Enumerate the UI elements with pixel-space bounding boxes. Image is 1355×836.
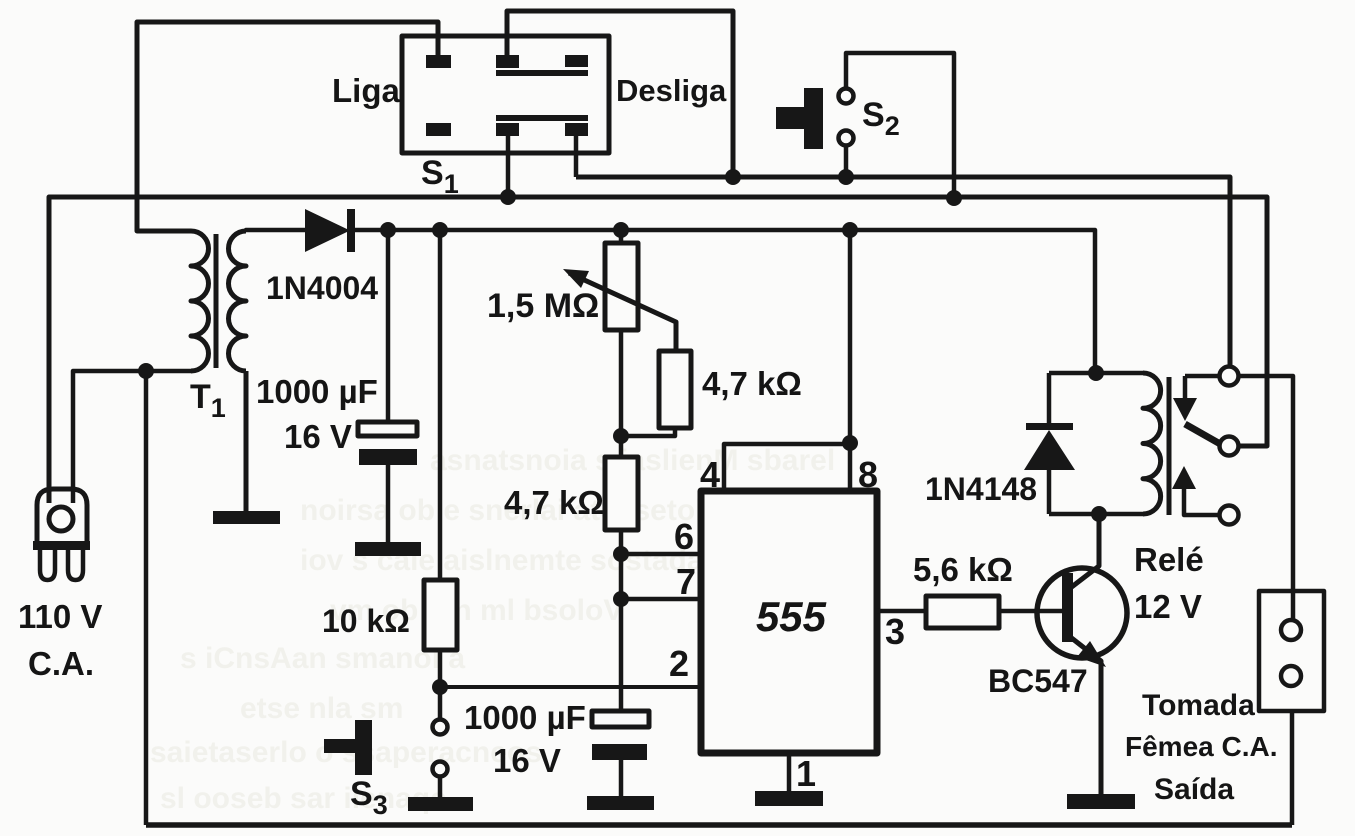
svg-text:1000 µF: 1000 µF xyxy=(464,699,586,736)
transformer T1 primary winding xyxy=(191,231,209,371)
transformer T1 core xyxy=(214,234,219,368)
relay RL1 NO contact stem xyxy=(1184,487,1219,515)
wire: secondary bottom to ground xyxy=(244,371,249,511)
wire: junction to S3 top circle xyxy=(438,687,443,719)
faint print bleed-through texture xyxy=(150,444,835,815)
svg-text:3: 3 xyxy=(885,611,905,652)
relay RL1 armature arm xyxy=(1185,424,1222,445)
ground: capacitor C2 xyxy=(587,796,654,810)
AC plug base plate xyxy=(33,541,90,550)
wire: AC bus A from plug to right side xyxy=(49,197,1267,503)
socket J1 Tomada box xyxy=(1259,591,1324,711)
pushbutton S3 actuator xyxy=(324,720,372,775)
svg-text:10 kΩ: 10 kΩ xyxy=(322,603,410,639)
capacitor C2 top plate xyxy=(592,711,649,727)
pushbutton S3 top contact circle xyxy=(433,720,448,735)
wire: pin 3 line to 5.6k resistor xyxy=(877,609,926,614)
node: pin 7 junction xyxy=(613,591,629,607)
resistor R2a bottom lead to junction xyxy=(621,428,675,436)
pushbutton S2 top contact circle xyxy=(839,89,854,104)
svg-text:12 V: 12 V xyxy=(1134,588,1202,625)
diode D2 1N4148 top lead xyxy=(1047,373,1052,423)
switch S1 bottom contact bar xyxy=(496,115,588,121)
svg-text:1N4148: 1N4148 xyxy=(925,471,1037,507)
node: S1 to bus A junction xyxy=(500,189,516,205)
diode D1 cathode bar xyxy=(347,209,355,252)
switch S1 pad top-left xyxy=(426,55,451,68)
pushbutton S2 actuator xyxy=(776,88,823,149)
potentiometer P1 bottom lead xyxy=(619,330,624,436)
wire: pin 4 to pin 8 tie bar xyxy=(724,444,850,491)
switch S1 pad bottom-left xyxy=(426,123,451,136)
svg-text:Relé: Relé xyxy=(1134,541,1204,578)
wire: secondary top to diode anode xyxy=(246,230,307,231)
node: C1 on bus B xyxy=(380,222,396,238)
switch S1 pad bottom-right xyxy=(565,123,588,136)
potentiometer P1 wiper arm xyxy=(569,273,676,351)
wire: socket bottom to ground rail xyxy=(1290,711,1295,825)
diode D1 1N4004 body xyxy=(305,209,350,252)
transistor Q1 base lead inside circle xyxy=(1037,609,1062,614)
wire: socket top hole lead inside box xyxy=(1291,591,1296,621)
switch S1 top contact bar xyxy=(496,70,588,76)
relay RL1 coil winding xyxy=(1143,373,1161,514)
resistor R2b 4.7k body xyxy=(605,457,638,530)
transformer T1 secondary winding xyxy=(229,231,247,371)
node: pin 6 junction xyxy=(613,546,629,562)
svg-text:4,7 kΩ: 4,7 kΩ xyxy=(504,484,604,521)
switch S1 pad top-middle xyxy=(496,55,519,68)
relay RL1 moving contact circle xyxy=(1220,437,1239,456)
ground: transformer secondary xyxy=(213,511,280,524)
node: 10k S3 pin2 junction xyxy=(432,679,448,695)
svg-text:etse nla sm: etse nla sm xyxy=(240,692,403,725)
wire: pin 8 vertical from bus B to IC xyxy=(848,230,853,491)
wire: primary bottom to plug and down to bottom rail xyxy=(73,371,191,503)
switch S1 pad top-right xyxy=(565,55,588,67)
node: relay coil bottom junction xyxy=(1091,506,1107,522)
pushbutton S2 bottom contact circle xyxy=(839,131,854,146)
wire: coil bottom junction to transistor collector xyxy=(1097,514,1102,566)
wire: moving contact to bus A drop xyxy=(1239,444,1267,449)
node: S2 bottom to net L1 xyxy=(838,169,854,185)
svg-text:1,5 MΩ: 1,5 MΩ xyxy=(487,287,599,325)
switch S1 box xyxy=(402,36,609,153)
resistor R2b bottom lead down through pins 6,7 to capacitor C2 xyxy=(619,530,624,711)
resistor R3 10k lead from bus B xyxy=(438,230,443,580)
transistor Q1 collector lead xyxy=(1069,514,1099,589)
IC U1 555 package xyxy=(701,491,877,753)
pushbutton S3 bottom contact circle xyxy=(433,762,448,777)
svg-text:110 V: 110 V xyxy=(18,598,102,635)
capacitor C1 lead from bus B xyxy=(386,230,391,422)
socket J1 top hole xyxy=(1281,620,1301,640)
diode D2 bottom lead xyxy=(1047,470,1052,514)
capacitor C1 top plate xyxy=(358,422,417,436)
capacitor C2 bottom plate xyxy=(592,744,647,760)
svg-text:4: 4 xyxy=(700,454,720,495)
wire: common contact right to output socket xyxy=(1239,376,1293,620)
relay RL1 NO contact circle xyxy=(1220,506,1239,525)
svg-text:Desliga: Desliga xyxy=(616,73,727,108)
svg-text:Tomada: Tomada xyxy=(1142,689,1255,722)
wire: pin 7 line xyxy=(621,597,701,602)
svg-text:6: 6 xyxy=(674,516,694,557)
node: primary bottom junction xyxy=(138,363,154,379)
relay RL1 pivot drop with arrowhead xyxy=(1183,376,1188,400)
svg-text:Fêmea C.A.: Fêmea C.A. xyxy=(1125,731,1278,762)
relay RL1 arrowhead down xyxy=(1173,398,1197,421)
ground: switch S3 xyxy=(408,797,473,811)
svg-text:1000 µF: 1000 µF xyxy=(256,373,378,410)
svg-text:2: 2 xyxy=(669,643,689,684)
wire: pin 1 to ground xyxy=(787,753,792,791)
svg-text:BC547: BC547 xyxy=(988,663,1088,699)
resistor R2b 4.7k top lead xyxy=(619,436,624,457)
wire: S1 top-middle pin loop up and over to Desliga line xyxy=(507,11,733,177)
wire: S2 bottom circle to net L1 xyxy=(844,146,849,177)
wire: pin 2 line from 10k/S3 junction xyxy=(440,685,701,689)
node: pot branch on bus B xyxy=(613,222,629,238)
svg-text:7: 7 xyxy=(676,561,696,602)
svg-text:Saída: Saída xyxy=(1154,773,1234,806)
wire: 5.6k to transistor base xyxy=(999,609,1062,614)
resistor R4 5.6k body xyxy=(926,596,999,628)
wire: S3 bottom circle to ground xyxy=(438,777,443,797)
svg-text:8: 8 xyxy=(858,454,878,495)
relay RL1 NO contact arrowhead up xyxy=(1172,466,1196,489)
wire: S1 bottom-right pin down to net L1 xyxy=(574,136,579,177)
capacitor C2 lead to ground xyxy=(619,759,624,796)
resistor R3 10k bottom lead xyxy=(438,650,443,687)
capacitor C1 lead to ground xyxy=(386,465,391,542)
node: pin4-pin8 tie xyxy=(842,435,858,451)
potentiometer P1 1.5M top lead xyxy=(619,230,624,243)
relay RL1 wire from common circle left to pivot xyxy=(1185,374,1219,379)
svg-text:C.A.: C.A. xyxy=(28,645,94,682)
node: pot and 4.7k junction xyxy=(613,428,629,444)
diode D2 body triangle xyxy=(1024,430,1075,470)
resistor R2a 4.7k body (wiper branch) xyxy=(659,351,691,428)
relay RL1 coil bottom wire xyxy=(1049,512,1143,517)
relay RL1 common contact circle xyxy=(1220,367,1239,386)
node: relay coil top junction xyxy=(1088,365,1104,381)
AC plug left prong xyxy=(40,550,55,580)
svg-text:4,7 kΩ: 4,7 kΩ xyxy=(702,365,802,402)
node: S2 loop to bus A junction xyxy=(946,190,962,206)
wire: S1 bottom-middle pin down to AC bus A xyxy=(506,136,511,197)
relay RL1 coil top wire xyxy=(1049,371,1143,376)
wire: pin 6 line xyxy=(621,552,701,557)
svg-text:Liga: Liga xyxy=(332,72,400,109)
svg-text:1N4004: 1N4004 xyxy=(266,270,378,306)
node: Desliga loop to net L1 xyxy=(725,169,741,185)
AC plug P1 xyxy=(37,489,87,546)
svg-text:555: 555 xyxy=(756,593,827,640)
node: pin8 branch on bus B xyxy=(842,222,858,238)
diode D2 cathode bar xyxy=(1026,423,1073,430)
AC plug right prong xyxy=(68,550,83,580)
wire: S2 top circle loop to bus A xyxy=(846,53,954,197)
resistor R3 10k body xyxy=(424,580,457,650)
node: 10k on bus B xyxy=(432,222,448,238)
wire: net L1 horizontal to relay common xyxy=(576,177,1230,366)
wire: DC bus B from diode cathode to relay coil xyxy=(352,230,1095,373)
capacitor C1 bottom plate xyxy=(359,449,417,465)
transistor Q1 base bar xyxy=(1062,573,1073,642)
svg-text:sl ooseb sar ilenaqe: sl ooseb sar ilenaqe xyxy=(160,782,447,815)
transistor Q1 emitter lead xyxy=(1069,636,1101,794)
ground: transistor emitter xyxy=(1067,794,1135,809)
wire: junction down to bottom ground rail xyxy=(144,371,149,825)
transistor Q1 BC547 circle xyxy=(1037,568,1127,658)
ground: capacitor C1 xyxy=(355,542,421,556)
wire: bottom ground rail xyxy=(146,822,1292,828)
svg-text:16 V: 16 V xyxy=(284,418,352,455)
svg-text:5,6 kΩ: 5,6 kΩ xyxy=(913,551,1013,588)
svg-text:1: 1 xyxy=(796,753,816,794)
socket J1 bottom hole xyxy=(1281,666,1301,686)
ground: IC pin 1 xyxy=(755,791,823,806)
AC plug face circle xyxy=(49,507,73,531)
relay RL1 core bar xyxy=(1167,377,1172,515)
wire: S1 Liga pin to transformer primary top xyxy=(137,22,438,231)
potentiometer P1 wiper arrowhead xyxy=(563,269,589,288)
transistor Q1 emitter arrowhead xyxy=(1077,641,1106,667)
switch S1 pad bottom-middle xyxy=(496,123,519,136)
svg-text:16 V: 16 V xyxy=(493,742,561,779)
potentiometer P1 1.5M body xyxy=(605,243,638,330)
